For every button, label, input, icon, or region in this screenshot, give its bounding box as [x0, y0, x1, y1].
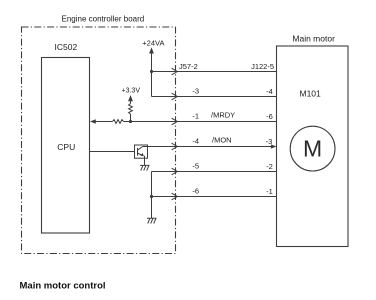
connector chevron row3 — [172, 118, 178, 125]
wire row3 /MRDY right segment — [124, 121, 277, 123]
arrowhead transistor emitter — [140, 153, 144, 156]
junction dot +24VA row1 — [150, 70, 153, 73]
svg-text:Engine controller board: Engine controller board — [62, 14, 145, 23]
arrowhead +24VA up — [149, 47, 154, 53]
wire row4 /MON driver to motor — [143, 146, 272, 148]
junction dot ground stub row6 — [150, 195, 153, 198]
engine controller board dashed boundary — [22, 27, 176, 254]
svg-text:/MRDY: /MRDY — [211, 111, 235, 120]
motor symbol circle M — [290, 126, 335, 171]
svg-text:Main motor: Main motor — [292, 34, 335, 44]
connector chevron row6 — [172, 193, 178, 200]
wire row5 pin5 to pin2 — [152, 171, 277, 173]
svg-text:-6: -6 — [192, 186, 199, 195]
arrowhead /MRDY into CPU — [90, 119, 96, 123]
ground under stub — [147, 218, 157, 223]
wire row6 pin6 to pin1 — [152, 196, 277, 198]
svg-text:-2: -2 — [266, 162, 273, 171]
wire ground stub vertical — [151, 172, 153, 219]
wire row2 pin3 to pin4 — [152, 96, 277, 98]
svg-text:+3.3V: +3.3V — [122, 87, 141, 94]
junction dot +3.3V row3 — [129, 120, 132, 123]
ground under driver — [140, 165, 150, 170]
svg-text:CPU: CPU — [57, 142, 75, 152]
svg-text:J57-2: J57-2 — [179, 62, 198, 71]
resistor R (series, /MRDY line) — [113, 120, 124, 124]
connector chevron row4 — [172, 143, 178, 150]
svg-text:M: M — [303, 136, 322, 162]
wire row1 +24VA to J57-2 / J122-5 pin5 — [152, 71, 277, 73]
transistor emitter stroke — [138, 153, 143, 156]
svg-text:-3: -3 — [192, 87, 199, 96]
svg-text:/MON: /MON — [212, 136, 232, 145]
wire row3 /MRDY left segment — [95, 121, 113, 123]
wire row4 /MON CPU to driver — [90, 151, 135, 153]
CPU IC502 box — [42, 58, 90, 234]
driver box (transistor) — [135, 145, 148, 158]
svg-text:-1: -1 — [192, 111, 199, 120]
svg-text:-5: -5 — [192, 161, 199, 170]
svg-text:IC502: IC502 — [55, 42, 78, 52]
connector chevron row2 — [172, 93, 178, 100]
svg-text:-6: -6 — [266, 112, 273, 121]
svg-text:-1: -1 — [266, 187, 273, 196]
svg-text:-3: -3 — [266, 137, 273, 146]
arrowhead +3.3V up — [128, 95, 133, 101]
connector chevron row1 — [172, 68, 178, 75]
wire emitter to ground — [144, 156, 146, 166]
svg-text:-4: -4 — [192, 136, 199, 145]
main motor box — [277, 46, 349, 247]
wire +3.3V above resistor — [130, 100, 132, 104]
connector chevron row5 — [172, 168, 178, 175]
svg-text:+24VA: +24VA — [142, 39, 164, 48]
resistor R (pull-up to +3.3V) — [129, 104, 133, 115]
transistor collector stroke — [138, 147, 143, 151]
arrowhead /MON into motor — [271, 144, 277, 148]
transistor base bar — [137, 148, 139, 156]
wire +3.3V pullup vertical — [130, 114, 132, 122]
svg-text:-4: -4 — [266, 87, 273, 96]
svg-text:Main motor control: Main motor control — [20, 281, 106, 292]
svg-text:M101: M101 — [300, 88, 322, 98]
wire +24VA vertical rail — [151, 53, 153, 97]
svg-text:J122-5: J122-5 — [251, 62, 274, 71]
